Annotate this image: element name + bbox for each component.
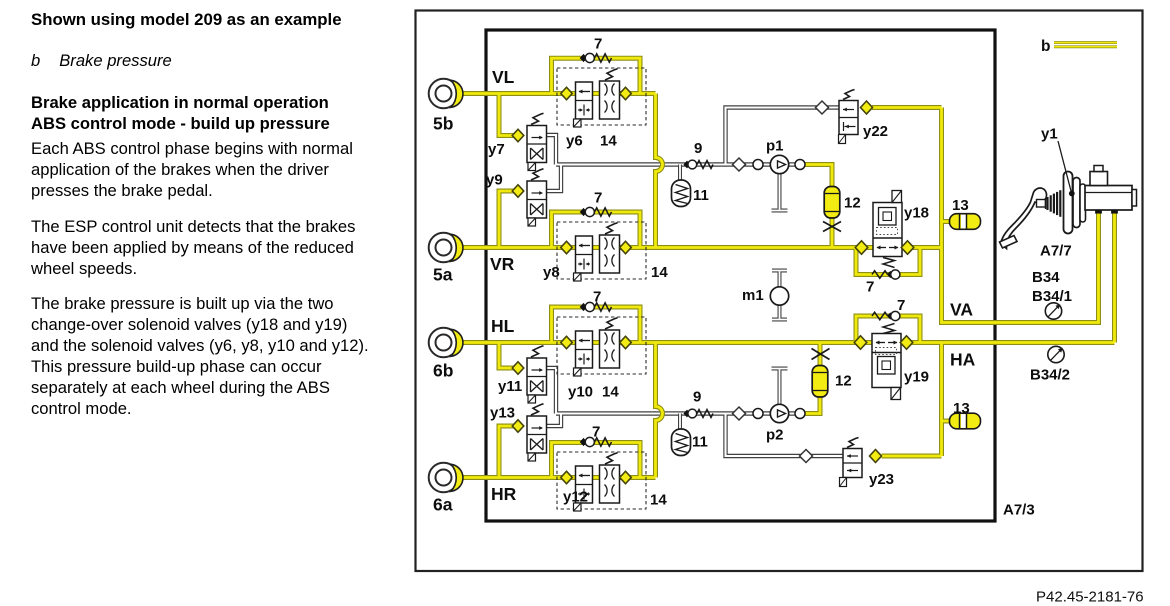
throttle (rear) — [812, 349, 830, 360]
low-pressure accumulator 11 (front) — [678, 165, 682, 181]
motor m1 shaft (lower) — [772, 305, 787, 320]
svg-text:11: 11 — [693, 187, 709, 204]
svg-text:HR: HR — [491, 484, 517, 504]
check valve 7 at y18 — [872, 271, 888, 279]
change-over valve y19 — [872, 334, 901, 388]
svg-text:m1: m1 — [742, 287, 764, 304]
svg-text:VR: VR — [490, 254, 515, 274]
svg-text:HA: HA — [950, 350, 976, 370]
svg-text:y1: y1 — [1041, 126, 1058, 143]
svg-text:9: 9 — [694, 140, 702, 157]
svg-text:b: b — [1041, 38, 1050, 55]
svg-text:y10: y10 — [568, 384, 593, 401]
solenoid outlet valve y11 — [512, 362, 524, 375]
wire: front-axle brake pressure lines (yellow) — [462, 58, 1099, 322]
svg-text:14: 14 — [602, 384, 619, 401]
brake pedal and booster assembly y1 A7/7 — [1001, 188, 1047, 248]
solenoid outlet valve y9 — [512, 185, 524, 198]
wire: rear-axle brake pressure lines (yellow) — [462, 211, 1115, 478]
svg-text:y23: y23 — [869, 471, 894, 488]
pump motor m1 — [770, 287, 788, 305]
master cylinder connection 13 (front) — [950, 214, 981, 230]
hydraulic unit A7/3 box — [486, 30, 995, 521]
svg-text:11: 11 — [692, 434, 708, 451]
pressure sensor B34/1 — [1045, 303, 1061, 319]
svg-text:y11: y11 — [498, 378, 522, 395]
svg-text:13: 13 — [953, 400, 970, 417]
return pump p1 — [733, 158, 746, 171]
solenoid inlet valve y6 with orifice 14 and check valve 7 — [557, 68, 646, 125]
change-over valve y18 — [873, 203, 902, 257]
svg-text:7: 7 — [897, 297, 905, 314]
pump p2 drive shaft — [772, 369, 788, 405]
solenoid inlet valve y12 with orifice 14 and check valve 7 — [557, 452, 646, 509]
svg-text:VA: VA — [950, 300, 973, 320]
svg-text:y13: y13 — [490, 405, 515, 422]
switch-over valve y23 — [800, 450, 813, 463]
svg-text:7: 7 — [592, 424, 600, 441]
legend: brake pressure line sample b — [1054, 41, 1117, 44]
switch-over valve y22 — [816, 101, 829, 114]
motor m1 shaft (upper) — [772, 271, 787, 288]
svg-text:y6: y6 — [566, 133, 583, 150]
svg-text:B34/1: B34/1 — [1032, 288, 1072, 305]
svg-text:y22: y22 — [863, 123, 888, 140]
svg-text:14: 14 — [600, 133, 617, 150]
svg-text:p1: p1 — [766, 138, 784, 155]
svg-text:y9: y9 — [486, 172, 503, 189]
pulsation damper 12 (rear) — [812, 366, 828, 398]
throttle (front) — [823, 222, 841, 232]
svg-text:B34/2: B34/2 — [1030, 367, 1070, 384]
svg-text:p2: p2 — [766, 427, 784, 444]
svg-text:9: 9 — [693, 389, 701, 406]
svg-text:A7/7: A7/7 — [1040, 243, 1072, 260]
svg-text:12: 12 — [844, 195, 861, 212]
low-pressure accumulator 11 (rear) — [678, 414, 682, 430]
svg-text:HL: HL — [491, 316, 515, 336]
svg-text:y18: y18 — [904, 205, 929, 222]
solenoid outlet valve y13 — [512, 420, 524, 433]
svg-text:y12: y12 — [563, 489, 588, 506]
pulsation damper 12 (front) — [824, 187, 840, 219]
svg-text:13: 13 — [952, 197, 969, 214]
check valve with restrictor 9 (rear) — [684, 410, 690, 417]
svg-text:7: 7 — [594, 36, 602, 53]
check valve 7 at y19 — [872, 312, 888, 320]
wire: rear-axle return/suction lines (gray) — [547, 368, 844, 456]
svg-text:P42.45-2181-76: P42.45-2181-76 — [1036, 589, 1144, 606]
svg-text:14: 14 — [651, 264, 668, 281]
svg-text:B34: B34 — [1032, 269, 1060, 286]
svg-text:6b: 6b — [433, 361, 453, 381]
master cylinder connection 13 (rear) — [950, 413, 981, 429]
svg-text:7: 7 — [593, 289, 601, 306]
svg-text:VL: VL — [492, 67, 515, 87]
solenoid inlet valve y10 with orifice 14 and check valve 7 — [557, 317, 646, 374]
svg-text:5a: 5a — [433, 265, 453, 285]
svg-text:y19: y19 — [904, 369, 929, 386]
svg-text:y8: y8 — [543, 264, 560, 281]
check valve with restrictor 9 (front) — [684, 161, 690, 168]
wheel brake 5b (front left) — [429, 79, 459, 109]
svg-text:y7: y7 — [488, 141, 505, 158]
svg-text:6a: 6a — [433, 495, 453, 515]
pressure sensor B34/2 — [1048, 346, 1064, 362]
svg-text:5b: 5b — [433, 114, 453, 134]
tandem master cylinder with reservoir — [1085, 186, 1132, 211]
svg-text:7: 7 — [866, 279, 874, 296]
svg-text:14: 14 — [650, 492, 667, 509]
solenoid inlet valve y8 with orifice 14 and check valve 7 — [557, 222, 646, 279]
solenoid outlet valve y7 — [512, 129, 524, 142]
wire: front-axle return/suction lines (gray) — [547, 108, 840, 192]
svg-text:A7/3: A7/3 — [1003, 502, 1035, 519]
enclosure frame (outer system boundary) — [416, 11, 1143, 572]
return pump p2 — [733, 407, 746, 420]
wheel brake 6a (rear right) — [429, 463, 459, 493]
wheel brake 5a (front right) — [429, 233, 459, 263]
svg-text:12: 12 — [835, 373, 852, 390]
svg-text:7: 7 — [594, 190, 602, 207]
pump p1 drive shaft — [772, 174, 788, 211]
wheel brake 6b (rear left) — [429, 328, 459, 358]
